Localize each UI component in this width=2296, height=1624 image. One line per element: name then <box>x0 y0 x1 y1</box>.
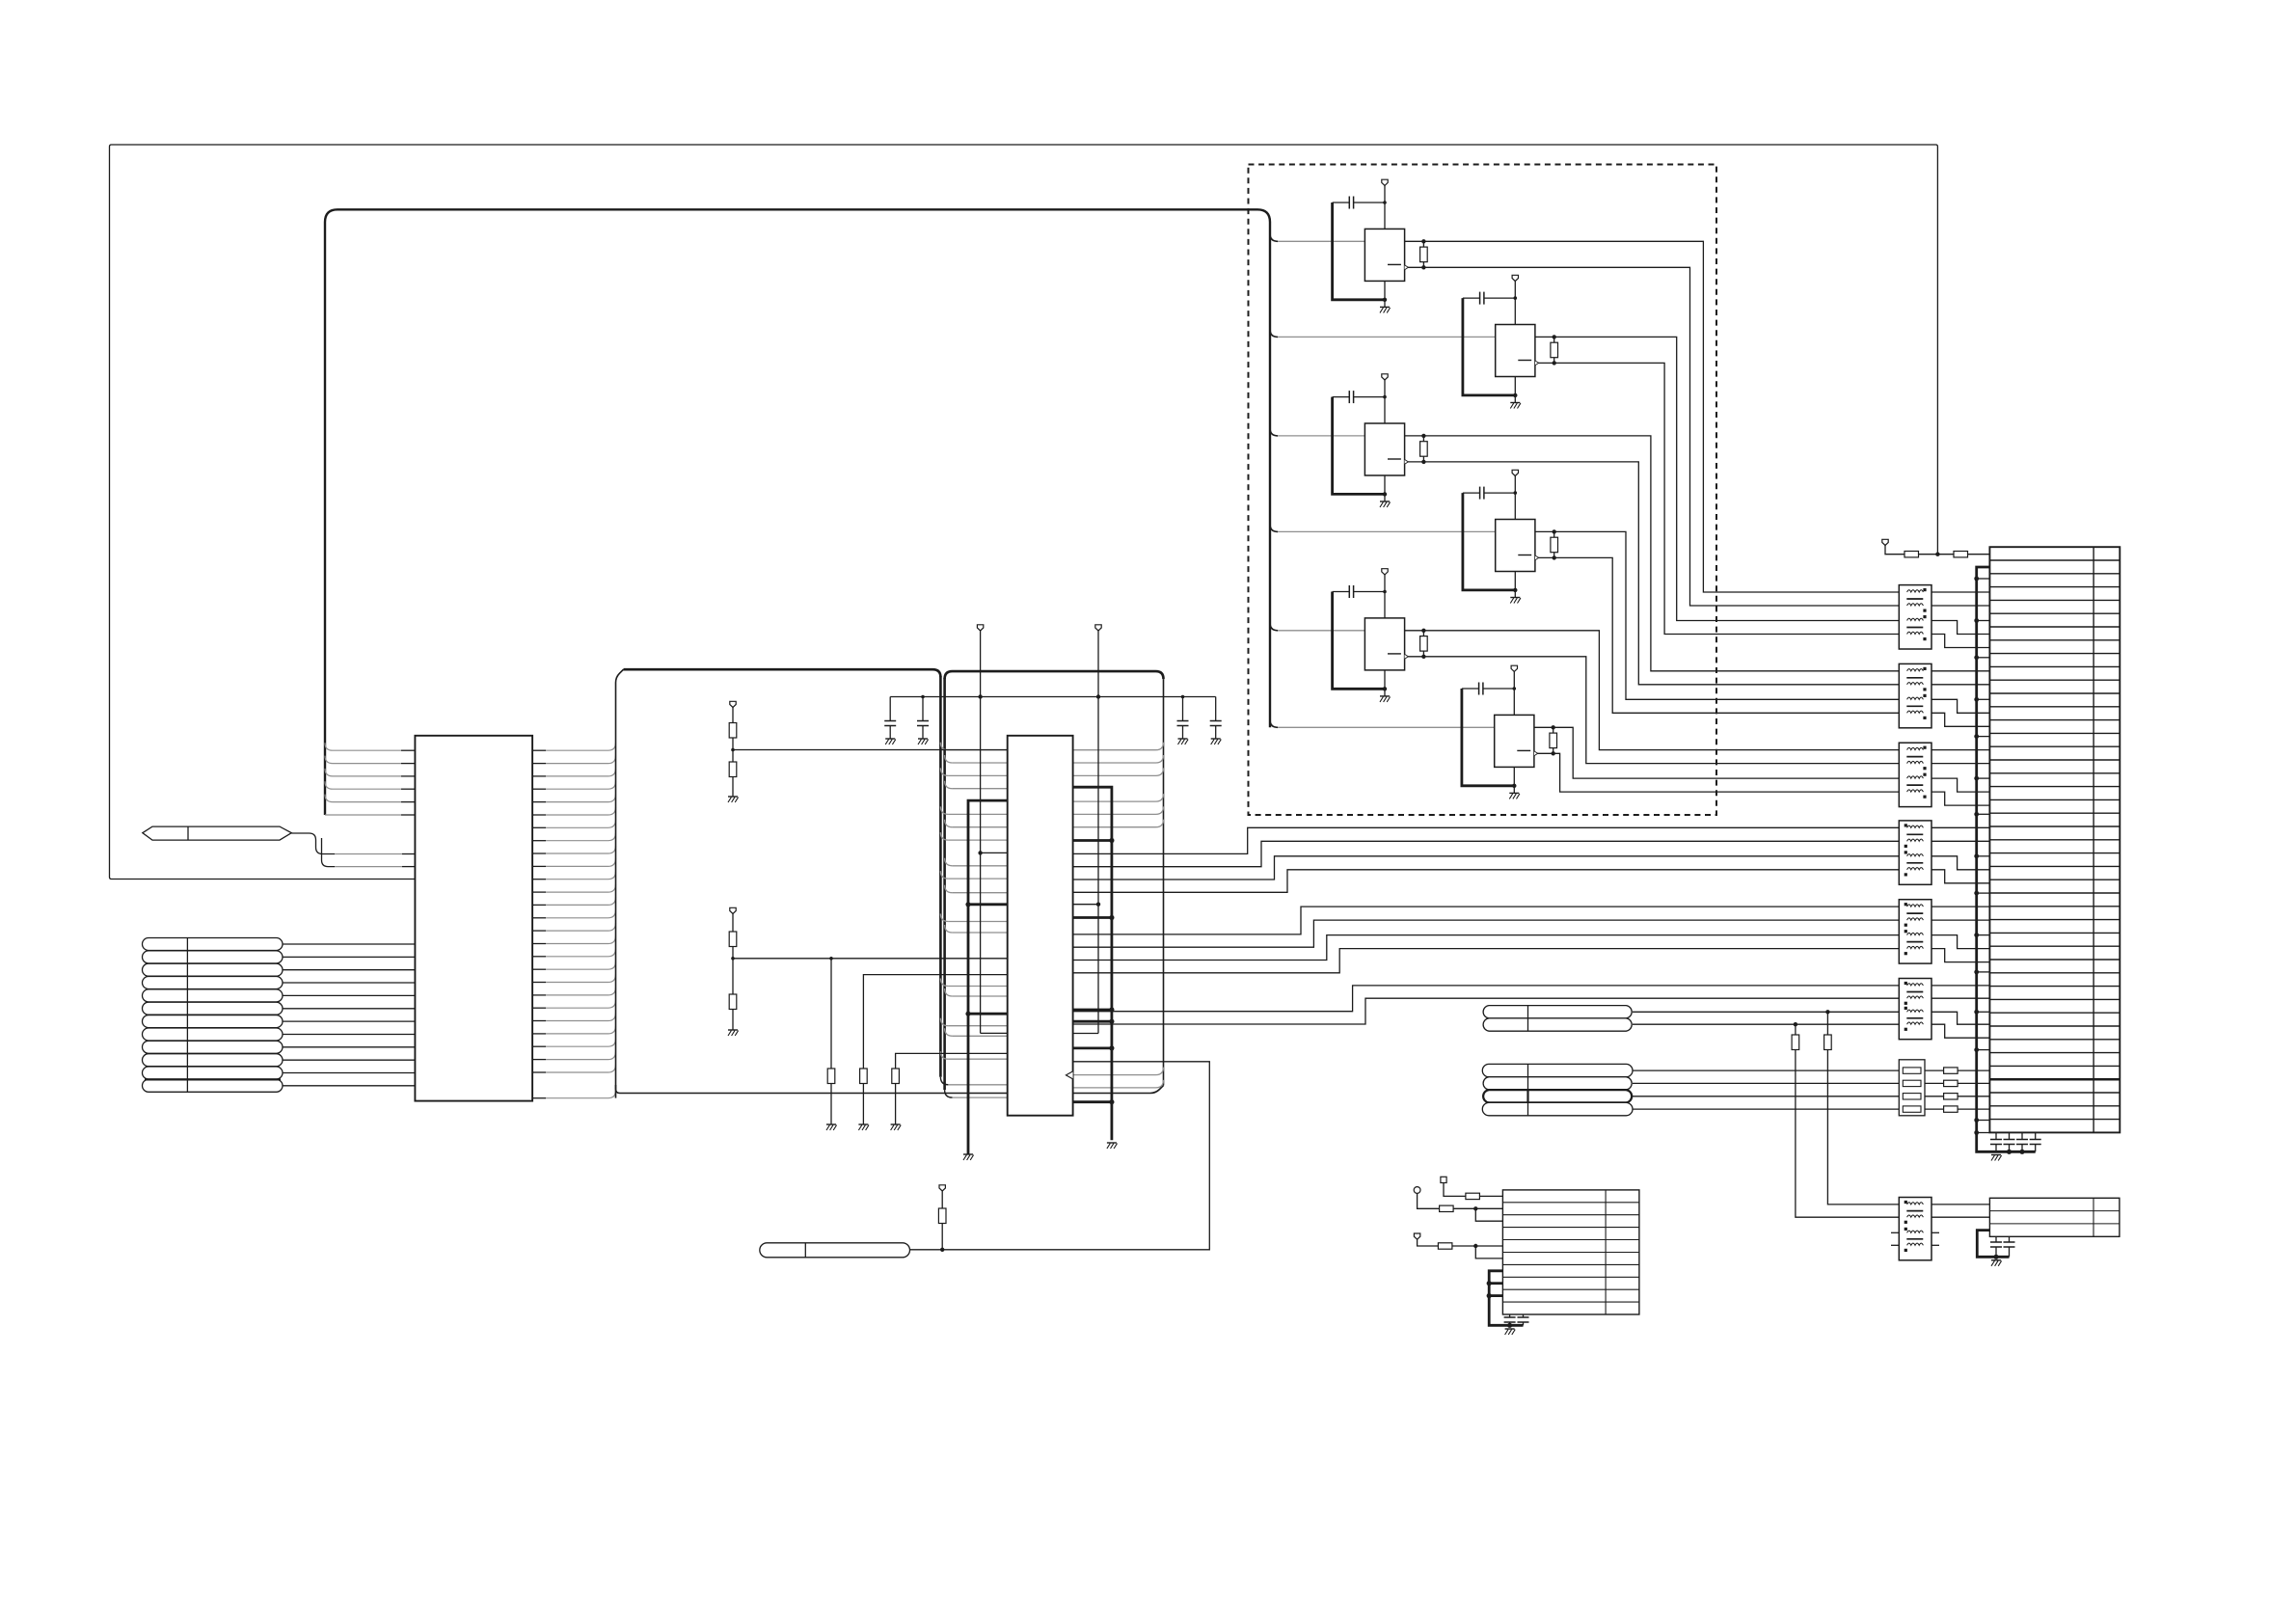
resistor R7 across outputs <box>1422 631 1424 657</box>
ground R15 <box>826 1123 836 1125</box>
power flag U5 <box>1382 374 1388 380</box>
power flag P4 <box>939 1185 945 1191</box>
ground IC2 right <box>1107 1142 1117 1144</box>
wire U4 ground loop <box>1463 298 1515 395</box>
wire bus B right vertical <box>1163 679 1165 1085</box>
ground R17 <box>891 1123 901 1125</box>
resistor R12 <box>729 762 737 777</box>
net label N8 <box>143 1028 284 1041</box>
wire U5 ground loop <box>1333 397 1385 495</box>
capacitor C6 <box>1463 492 1480 494</box>
net label N6 <box>143 1002 284 1015</box>
power flag P6 <box>1882 539 1888 545</box>
capacitor C11 <box>889 697 891 721</box>
wire M3 to resistor pack <box>1633 1069 1899 1071</box>
ground U3 <box>1380 306 1390 308</box>
wire divider2 tap to IC2 <box>733 958 1008 960</box>
resistor R13 <box>732 914 734 933</box>
wire U7 output B to filter <box>1405 657 1900 764</box>
wire M1 to filter6 <box>1633 1011 1899 1013</box>
capacitor C3 <box>1333 202 1350 203</box>
wire pulldown net 2 <box>863 975 1007 1069</box>
resistor R6 across outputs <box>1553 531 1555 557</box>
wire U6 output B to filter <box>1535 557 1899 713</box>
wire IC2 left fan entries <box>940 743 948 750</box>
resistor R25 <box>1954 552 1968 557</box>
wire IC2 to label net bottom <box>910 1062 1210 1250</box>
capacitor C20 <box>2035 1133 2037 1140</box>
capacitor C13 <box>1182 697 1184 721</box>
net label N10 <box>143 1054 284 1067</box>
wire U7 ground loop <box>1333 592 1385 690</box>
wire U5 output A to filter <box>1405 436 1900 671</box>
resistor R22 <box>1440 1205 1454 1211</box>
capacitor C16 <box>1523 1314 1525 1317</box>
wire U4 output B to filter <box>1535 363 1899 634</box>
ground R14 <box>728 1029 738 1031</box>
ground C11 <box>885 738 895 740</box>
power flag U6 <box>1512 470 1518 475</box>
wire U4 output A to filter <box>1535 337 1899 620</box>
capacitor C15 <box>1509 1314 1511 1317</box>
wire N9 to IC1 <box>283 1046 415 1048</box>
resistor R20 <box>1795 1024 1796 1035</box>
ground CONN-BR <box>1991 1259 2001 1261</box>
wire U6 output A to filter <box>1535 531 1899 699</box>
resistor R17 <box>892 1069 900 1084</box>
connector CONN-R <box>1989 547 2120 1132</box>
power flag U3 <box>1382 179 1388 185</box>
ground U5 <box>1380 501 1390 502</box>
wire U7 output A to filter <box>1405 631 1900 750</box>
capacitor C17 <box>1995 1133 1997 1140</box>
net label N9 <box>143 1041 284 1053</box>
net label M4 <box>1483 1077 1632 1090</box>
driver box U4 <box>1496 325 1535 377</box>
resistor R23 <box>1438 1243 1452 1249</box>
net label N12 <box>143 1079 284 1092</box>
wire N4 to IC1 <box>283 982 415 984</box>
net label M3 <box>1482 1064 1633 1076</box>
wire bus entries IC1 top-left pins <box>401 749 415 751</box>
wire U6 ground loop <box>1463 493 1515 590</box>
wire U3 ground loop <box>1333 203 1385 300</box>
IC2 clock pin mark <box>1066 1071 1072 1079</box>
wire R20 to filter7 <box>1796 1050 1899 1218</box>
net label N2 <box>143 951 284 963</box>
ground U6 <box>1510 597 1520 599</box>
wire N11 to IC1 <box>283 1072 415 1074</box>
wire N6 to IC1 <box>283 1008 415 1010</box>
wire net-label to IC1 step <box>291 833 335 854</box>
ground R12 <box>728 796 738 798</box>
driver box U8 <box>1495 715 1534 767</box>
wire IC2 right fan entries <box>1073 743 1164 750</box>
wire U5 ground pin <box>1384 475 1386 501</box>
power flag P2 <box>977 625 983 631</box>
filter FL6 <box>1899 979 1931 1040</box>
resistor R8 across outputs <box>1553 727 1554 753</box>
ground CONN-BL <box>1505 1328 1515 1330</box>
net label ARROW2 <box>760 1243 910 1258</box>
resistor series element <box>1925 1082 1944 1084</box>
IC1 box U1 <box>415 736 532 1101</box>
wire bus from IC1 top-left pins up to top rail <box>325 209 1270 815</box>
power flag P3 <box>1095 625 1101 631</box>
wire CONN-BL ground rows <box>1489 1271 1523 1326</box>
resistor R18 pull-up <box>941 1191 943 1208</box>
net label M1 <box>1483 1006 1632 1018</box>
dashed enclosure box <box>1249 165 1717 816</box>
resistor R14 <box>729 994 737 1010</box>
net label N5 <box>143 989 284 1002</box>
wire IC2 right ground bus <box>1073 787 1112 1140</box>
wire FL7 outputs to CONN-BR <box>1931 1204 1989 1205</box>
driver box U6 <box>1496 520 1535 572</box>
wire M5 to resistor pack <box>1633 1096 1899 1097</box>
resistor R11 <box>732 708 734 723</box>
wire U5 output B to filter <box>1405 462 1900 685</box>
wire FL7 stub rows <box>1891 1232 1899 1233</box>
ground U8 <box>1509 792 1519 794</box>
wire filter outputs to CONN-R <box>1931 591 1989 593</box>
capacitor C5 <box>1333 396 1350 398</box>
wire fan-out to driver inputs <box>1270 233 1278 241</box>
ground C14 <box>1211 738 1221 740</box>
ground CONN-R <box>1991 1154 2001 1156</box>
capacitor C21 <box>1995 1236 1997 1242</box>
wire VCC right vertical <box>1097 697 1099 1034</box>
wire VCC rail <box>890 696 1215 698</box>
wire N8 to IC1 <box>283 1034 415 1036</box>
resistor R15 <box>827 1069 835 1084</box>
connector CONN-BR <box>1989 1198 2120 1236</box>
IC2 box U2 <box>1008 736 1073 1116</box>
capacitor C18 <box>2009 1133 2011 1140</box>
wire N10 to IC1 <box>283 1059 415 1061</box>
connector CONN-BL <box>1502 1190 1639 1314</box>
wire U8 ground pin <box>1513 767 1515 793</box>
wire N1 to IC1 <box>283 943 415 945</box>
resistor R4 across outputs <box>1553 337 1555 363</box>
power flag D1 <box>730 701 736 707</box>
wire CONN-R ground bus <box>1977 567 2036 1151</box>
wire bus B left vertical to IC2 <box>943 678 946 1090</box>
wire U4 ground pin <box>1514 377 1516 403</box>
net label M2 <box>1483 1018 1632 1031</box>
capacitor C7 <box>1333 591 1350 593</box>
driver box U5 <box>1364 423 1404 475</box>
wire bus A right vertical to IC2 <box>939 676 942 1077</box>
bold edge net label N12 <box>145 1078 281 1080</box>
wire CONN-BR ground row <box>1977 1231 2009 1258</box>
filter FL4 <box>1899 821 1931 884</box>
capacitor C8 <box>1462 688 1479 690</box>
wire IC1 right pins to bus A <box>532 749 546 751</box>
resistor series element <box>1925 1108 1944 1110</box>
net label ARROW1 <box>143 826 291 840</box>
wire IC2 left ground bus <box>968 800 1008 1154</box>
driver box U7 <box>1364 618 1404 670</box>
wire N5 to IC1 <box>283 994 415 996</box>
wire outer net rectangle (VCC ring) <box>110 145 1938 880</box>
wire square pad net <box>1444 1183 1466 1197</box>
capacitor C22 <box>2009 1236 2011 1242</box>
capacitor C14 <box>1215 697 1217 721</box>
circle pin net <box>1414 1187 1420 1194</box>
net label N1 <box>143 938 284 951</box>
resistor R19 <box>1826 1012 1828 1035</box>
net label N7 <box>143 1015 284 1028</box>
wire to row3 <box>1475 1208 1502 1221</box>
capacitor C19 <box>2021 1133 2023 1140</box>
filter FL1 <box>1899 585 1931 649</box>
wire to row6 <box>1475 1246 1502 1259</box>
wire U6 ground pin <box>1514 572 1516 598</box>
resistor R16 <box>860 1069 868 1084</box>
capacitor C12 <box>922 697 924 721</box>
ground U4 <box>1510 402 1520 404</box>
wire U3 output B to filter <box>1405 267 1900 606</box>
ground IC2 left <box>963 1153 973 1155</box>
wire U8 output B to filter <box>1534 753 1899 792</box>
wire N3 to IC1 <box>283 969 415 971</box>
filter FL3 <box>1899 743 1931 806</box>
wire R19 to filter7 <box>1827 1050 1899 1204</box>
resistor R5 across outputs <box>1422 436 1424 462</box>
resistor series element <box>1925 1096 1944 1097</box>
ground C13 <box>1178 738 1188 740</box>
ground C12 <box>918 738 928 740</box>
power flag P5 <box>1414 1233 1419 1239</box>
resistor R24 <box>1904 552 1919 557</box>
wire M2 to filter6 <box>1633 1023 1899 1025</box>
resistor pack RP1 <box>1899 1060 1925 1116</box>
filter FL5 <box>1899 900 1931 963</box>
wire pulldown net 3 <box>896 1053 1008 1069</box>
ground R16 <box>858 1123 868 1125</box>
wire bus bottom rail <box>616 1085 1164 1094</box>
wire U7 ground pin <box>1384 670 1386 696</box>
driver box U3 <box>1364 229 1404 281</box>
resistor R21 <box>1466 1193 1480 1199</box>
wire U8 ground loop <box>1462 689 1514 786</box>
net label N11 <box>143 1067 284 1079</box>
net label M5 <box>1483 1090 1632 1102</box>
resistor R3 across outputs <box>1422 241 1424 267</box>
net label N3 <box>143 963 284 976</box>
wire bus B top <box>945 671 1164 679</box>
wire U8 output A to filter <box>1534 727 1899 778</box>
wire divider1 tap to IC2 <box>733 749 1008 751</box>
net label N4 <box>143 977 284 989</box>
wire bus A vertical and top <box>616 669 624 1097</box>
power flag D2 <box>730 907 736 913</box>
power flag U4 <box>1512 275 1518 281</box>
net label M6 <box>1482 1102 1633 1115</box>
filter FL2 <box>1899 663 1931 727</box>
wire N7 to IC1 <box>283 1020 415 1022</box>
wire staircase IC2 to filters <box>1073 827 1900 853</box>
wire pulldown net 1 <box>830 959 832 1069</box>
wire power to CONN-R row1 <box>1885 546 1904 555</box>
square pad <box>1441 1177 1446 1182</box>
wire N12 to IC1 <box>283 1085 415 1087</box>
wire VCC left vertical <box>980 697 982 1034</box>
wire N2 to IC1 <box>283 956 415 958</box>
capacitor C4 <box>1463 297 1480 299</box>
resistor series element <box>1925 1069 1944 1071</box>
wire U3 output A to filter <box>1405 241 1900 592</box>
power flag U8 <box>1511 665 1517 671</box>
power flag U7 <box>1382 569 1388 575</box>
ground U7 <box>1380 695 1390 697</box>
wire U3 ground pin <box>1384 281 1386 307</box>
wire M6 to resistor pack <box>1633 1108 1899 1110</box>
wire M4 to resistor pack <box>1633 1082 1899 1084</box>
filter FL7 <box>1899 1198 1931 1260</box>
